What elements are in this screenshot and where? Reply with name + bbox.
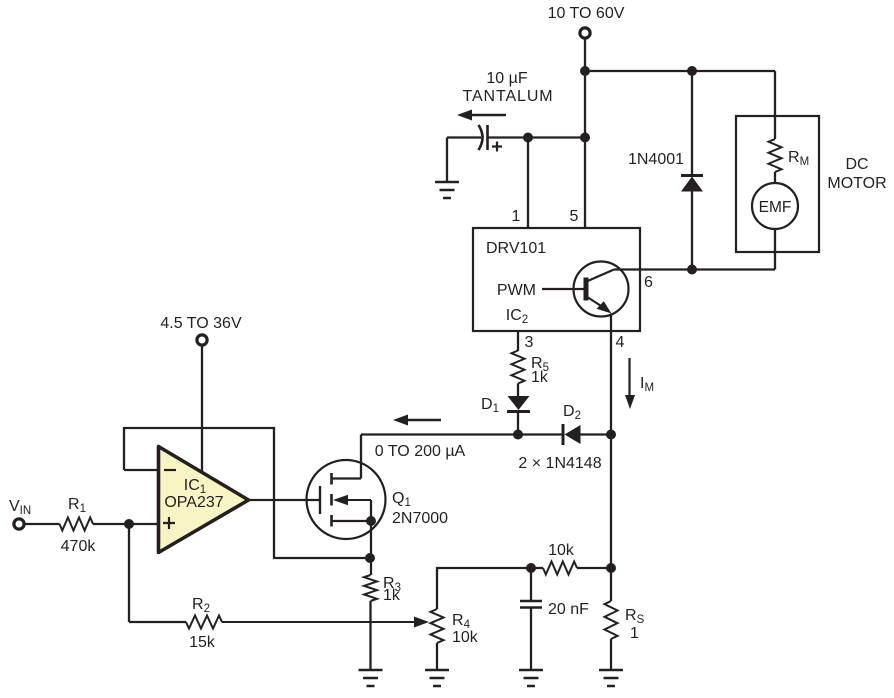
wire RS to ground [610,639,612,670]
wire pin6 rail [614,268,775,270]
current arrow left (cap) [471,114,506,116]
junction D1 node [513,430,523,440]
svg-text:6: 6 [644,274,653,291]
resistor R1 [60,518,94,531]
wire filter right stub [577,567,611,569]
wire R1 to plus input [93,523,159,525]
label minus [164,469,176,471]
svg-text:4.5 TO 36V: 4.5 TO 36V [160,315,242,332]
terminal opamp supply [197,335,207,345]
capacitor C1 straight plate [486,125,489,150]
wire pin4 [610,314,612,435]
resistor RM [769,139,782,172]
svg-text:15k: 15k [189,634,216,651]
diode D3 1N4001 [681,174,703,177]
junction top rail at C1 column [580,66,590,76]
wire R3 to ground [369,601,371,670]
junction input node [124,519,134,529]
wire R2 left stub [129,621,186,623]
current arrow left (drain) [407,419,441,421]
EMF source circle [752,183,798,229]
capacitor C1 plus sign [492,142,502,152]
wire filter node to R4 [437,568,531,609]
wire D2 to pin4 node [581,433,612,435]
svg-text:D1: D1 [481,396,499,415]
wire motor feed [774,71,776,139]
svg-text:470k: 470k [61,538,97,555]
wire pin3 [517,331,519,351]
wire input node down [128,524,130,622]
svg-text:Q1: Q1 [392,490,411,509]
wire sense to RS [610,568,612,601]
svg-text:4: 4 [616,334,625,351]
resistor R2 [186,616,222,629]
wire cap20 to ground [530,608,532,671]
svg-text:10k: 10k [452,629,479,646]
wire cap to rail [488,136,586,138]
svg-text:20 nF: 20 nF [548,601,589,618]
wire RM to EMF [774,172,776,184]
junction Q1 source [366,516,376,526]
svg-text:1k: 1k [383,587,401,604]
wire R4 to ground [436,643,438,670]
ground cap [435,182,459,198]
Q1 drain leg [332,435,361,479]
resistor RS [605,601,618,639]
svg-text:TANTALUM: TANTALUM [462,88,553,105]
wire minus input [124,469,158,471]
svg-text:1N4001: 1N4001 [628,151,684,168]
wire cap ground drop [446,138,448,183]
wire opamp supply [201,346,203,471]
junction cap-pin5 [580,133,590,143]
svg-text:10 µF: 10 µF [486,70,527,87]
ground RS [599,670,623,686]
wire Q1 source down [370,521,372,575]
wire R5 to D1 [517,384,519,397]
svg-text:10k: 10k [548,542,575,559]
svg-text:RM: RM [788,149,809,168]
Q1 body arrow [345,499,371,501]
ground R4 [425,670,449,686]
transistor collector [587,270,615,282]
terminal VIN [14,519,24,529]
op-amp IC1 triangle [159,447,249,553]
resistor R4 pot [431,609,444,643]
wire pin1 [527,138,529,229]
wire pin5 [584,138,586,229]
IM arrow [628,358,630,399]
svg-text:R1: R1 [68,496,86,515]
svg-text:1: 1 [630,625,639,642]
wire supply drop [584,39,586,71]
junction pin6-D3 [687,265,697,275]
capacitor 20nF [520,601,542,608]
wire filter left stub [531,567,543,569]
resistor 10k filter [543,562,577,575]
wire EMF to pin6 rail [774,229,776,270]
motor box [736,116,819,252]
junction pin4 node [606,430,616,440]
svg-text:1: 1 [512,208,521,225]
wire R2 to wiper [222,621,415,623]
transistor Q1 circle [307,460,386,539]
wire VIN to R1 [25,523,60,525]
resistor R3 [364,575,377,601]
wire feedback loop [124,428,370,558]
svg-text:D2: D2 [563,403,581,422]
junction cap-pin1 [523,133,533,143]
resistor R5 [512,351,525,384]
svg-text:2N7000: 2N7000 [392,510,448,527]
wire PWM to base [542,288,584,290]
IC U-DRV101 box [473,228,640,331]
svg-text:2 × 1N4148: 2 × 1N4148 [518,455,601,472]
ground R3 [359,670,383,686]
wire D3 anode [691,191,693,270]
label plus [163,517,175,529]
diode D2 [562,424,565,445]
wire D1 to node [517,412,519,435]
transistor emitter [587,297,606,309]
svg-text:DRV101: DRV101 [486,240,546,257]
junction source node [365,553,375,563]
diode D1 [508,396,530,410]
wire pin4 to sense node [610,435,612,569]
svg-text:IM: IM [640,375,654,394]
svg-text:RS: RS [625,607,645,626]
wire supply column to cap node [584,71,586,138]
wire opamp output to gate [249,499,321,501]
terminal 10-60V [580,28,590,38]
svg-text:3: 3 [525,334,534,351]
wire drain rail [361,433,563,435]
ground cap20 [519,670,543,686]
svg-text:MOTOR: MOTOR [827,175,886,192]
junction top rail at D3 [687,66,697,76]
Q1 source leg [332,500,371,521]
svg-text:1k: 1k [531,369,549,386]
svg-text:OPA237: OPA237 [164,494,223,511]
transistor base bar [584,278,589,301]
svg-text:DC: DC [845,156,868,173]
svg-text:10 TO 60V: 10 TO 60V [548,5,625,22]
wire top rail [585,70,775,72]
svg-text:R2: R2 [192,596,210,615]
wire cap20 drop [530,568,532,601]
wire cap left [447,136,481,138]
Q1 gate bar [319,486,321,514]
junction sense node [606,563,616,573]
svg-text:IC2: IC2 [506,307,528,326]
svg-text:0 TO 200 µA: 0 TO 200 µA [375,443,466,460]
capacitor C1 curved plate [479,125,483,150]
svg-text:VIN: VIN [9,498,31,517]
wire D3 cathode [691,71,693,176]
junction filter node [526,563,536,573]
svg-text:5: 5 [570,208,579,225]
svg-text:PWM: PWM [497,282,536,299]
Q1 channel segments [330,473,333,527]
transistor Q-int circle [574,262,629,317]
svg-text:EMF: EMF [759,199,792,216]
